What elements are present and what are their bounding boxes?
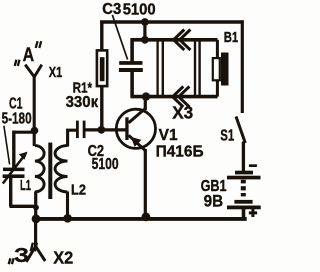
wire C3 top stub	[130, 39, 134, 62]
wire antenna down to tank	[33, 76, 36, 146]
node C1/L1 small junction	[33, 205, 39, 211]
wire loop bottom horizontal	[131, 95, 218, 99]
battery GB1 cell plates	[235, 171, 253, 175]
wire L2 bottom	[66, 192, 69, 219]
label ground Z with quotes	[9, 243, 37, 265]
capacitor C2 plates	[76, 121, 79, 139]
node antenna/C1 tee dot	[31, 127, 39, 135]
svg-text:X1: X1	[49, 64, 63, 81]
svg-text:V1: V1	[159, 127, 178, 144]
wire emitter down	[144, 149, 147, 218]
svg-text:X2: X2	[53, 247, 73, 267]
wire C1 lower stub	[9, 178, 12, 207]
wire riser rail to loop	[143, 22, 146, 40]
node L1/X2 ground junction dot	[32, 215, 41, 224]
wire L2 top to C2	[68, 130, 77, 146]
node emitter rail dot	[142, 213, 151, 222]
svg-text:S1: S1	[220, 128, 234, 145]
wire X2 drop	[34, 220, 37, 246]
leader line 5-180 label	[4, 126, 10, 165]
wire right rail	[241, 20, 244, 113]
svg-text:330к: 330к	[66, 94, 99, 111]
connector X3 plug arrow top	[174, 30, 185, 51]
connector X3 socket lines right pair	[194, 40, 196, 97]
transistor V1 circle	[116, 109, 155, 148]
wire top rail	[100, 20, 243, 23]
transistor V1 collector	[129, 108, 146, 122]
svg-text:L1: L1	[20, 177, 31, 194]
wire C1 bottom horizontal	[10, 205, 37, 208]
wire C1 upper stub	[12, 131, 15, 168]
svg-text:5100: 5100	[92, 156, 119, 173]
antenna X1 fork	[25, 65, 42, 77]
wire R1 bottom	[100, 87, 103, 130]
svg-text:C3: C3	[102, 1, 121, 18]
node base junction dot	[98, 126, 106, 134]
node L2/rail junction dot	[63, 214, 72, 223]
connector X3 plug arrow bottom	[173, 86, 184, 107]
wire C1 tee horizontal	[13, 131, 36, 134]
wire C3 bottom stub	[130, 72, 134, 97]
svg-text:B1: B1	[224, 29, 239, 46]
svg-text:L2: L2	[71, 181, 86, 198]
wire C2 to base	[86, 128, 127, 131]
earphone B1	[216, 40, 219, 97]
node top rail dot	[141, 18, 149, 26]
battery GB1 plus sign	[249, 209, 257, 217]
inductor L1	[35, 146, 44, 192]
transistor V1 base bar	[125, 117, 128, 140]
transistor V1 emitter with arrow	[129, 135, 146, 150]
svg-text:5100: 5100	[123, 1, 156, 18]
svg-text:З: З	[14, 245, 29, 267]
wire switch to battery	[242, 142, 245, 172]
connector X3 socket lines left pair	[156, 40, 158, 97]
node loop top dot	[141, 36, 149, 44]
svg-text:9В: 9В	[204, 192, 224, 210]
capacitor C3 plates	[119, 61, 142, 65]
wire L1 bottom	[34, 192, 37, 221]
resistor R1	[97, 50, 107, 86]
transformer core	[48, 143, 52, 199]
node collector junction dot	[142, 92, 150, 100]
svg-text:П416Б: П416Б	[156, 144, 204, 161]
switch S1 blade	[236, 117, 245, 144]
svg-text:5-180: 5-180	[2, 110, 32, 127]
svg-text:X3: X3	[172, 103, 193, 123]
inductor L2	[55, 146, 67, 192]
wire R1 top riser	[100, 23, 103, 50]
battery GB1 minus sign	[249, 164, 257, 167]
ground X2 fork	[26, 246, 45, 261]
wire battery to bottom rail	[242, 209, 246, 219]
capacitor C1 plates	[3, 168, 25, 172]
leader line C3 label	[112, 15, 127, 60]
svg-text:А: А	[23, 44, 34, 66]
capacitor C1 variable arrow	[3, 157, 24, 184]
wire loop top horizontal	[131, 38, 218, 42]
wire bottom rail	[35, 217, 247, 221]
label antenna A with quotes	[15, 41, 42, 66]
